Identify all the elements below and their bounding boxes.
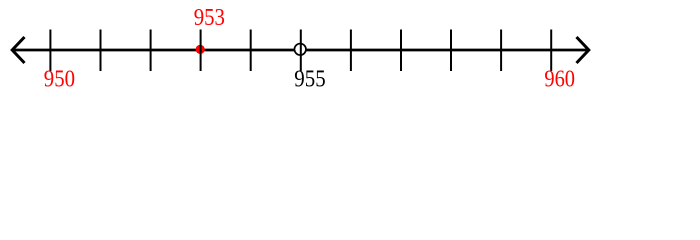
svg-text:955: 955 bbox=[294, 65, 325, 92]
svg-text:950: 950 bbox=[44, 65, 75, 92]
svg-text:960: 960 bbox=[544, 65, 575, 92]
svg-text:953: 953 bbox=[194, 4, 225, 31]
